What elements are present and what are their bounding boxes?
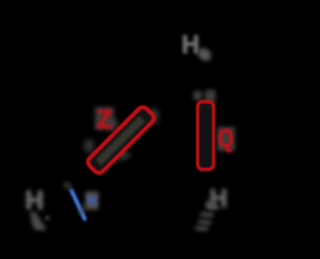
halo behind label Q	[217, 127, 235, 151]
svg-text:H: H	[181, 31, 199, 59]
hashed wedge bond below bottom-left H	[31, 214, 46, 228]
bond label Q	[218, 124, 234, 153]
double bond C=C inside Q box	[203, 108, 205, 163]
svg-text:Z: Z	[97, 104, 113, 134]
bond stub above Q box	[202, 86, 205, 101]
highlighted bond C-N (blue)	[71, 189, 86, 221]
bold wedge bond at top-right H	[195, 46, 213, 64]
svg-text:H: H	[25, 185, 44, 215]
hashed wedge bond below-left of bottom-right H	[196, 207, 220, 230]
gray band above Q box (left lobe)	[194, 91, 203, 101]
highlight box Q (vertical red rounded rectangle)	[198, 102, 214, 170]
halo behind label Z	[95, 107, 114, 130]
highlight box Z (rotated red rounded rectangle)	[86, 105, 156, 175]
artifact smudge below Z box lower edge	[112, 150, 130, 160]
artifact smudge between Z label and box	[108, 119, 118, 129]
red outline of Q box	[198, 102, 214, 170]
dot right of bottom-left wedge	[45, 216, 49, 220]
gray foot left of bottom-right H	[206, 200, 216, 209]
halo behind atom label N	[86, 192, 99, 210]
smudge left of Z box corner	[84, 139, 94, 153]
bond stub below-left of N	[81, 205, 86, 214]
red outline of Z box	[86, 105, 156, 175]
artifact smudge right of Z box top corner	[147, 108, 159, 124]
dark blob at top of blue bond	[64, 182, 72, 189]
svg-text:Q: Q	[218, 124, 234, 153]
gray band above Q box (right lobe)	[205, 90, 216, 103]
bond stub below Q box	[202, 170, 205, 181]
double bond C=C inside Z box	[95, 115, 142, 162]
mottled gray band between double bond lines	[95, 116, 145, 166]
svg-text:N: N	[87, 192, 97, 208]
